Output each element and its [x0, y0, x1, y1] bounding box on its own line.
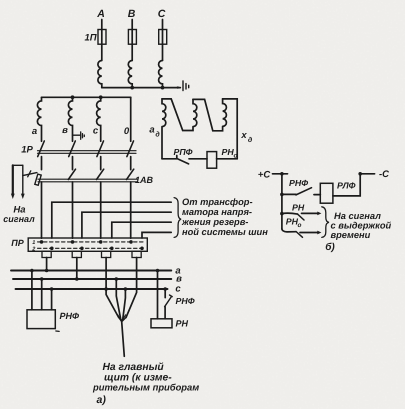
primary winding coil C: [159, 61, 163, 88]
bus c: [16, 288, 168, 290]
svg-text:времени: времени: [331, 230, 371, 240]
svg-text:От трансфор-: От трансфор-: [182, 197, 253, 207]
broken delta winding: [162, 99, 166, 159]
fuse 1П phase A: [98, 30, 106, 45]
svg-text:0: 0: [124, 126, 130, 137]
junction dot b-sec: [71, 95, 75, 99]
svg-text:с: с: [93, 126, 99, 137]
fuse 1П phase C: [159, 30, 167, 45]
svg-text:сигнал: сигнал: [3, 214, 35, 224]
switch 1АВ blade pole c: [97, 169, 104, 179]
fuse link c: [102, 251, 111, 257]
svg-text:-С: -С: [379, 169, 389, 180]
svg-text:1: 1: [32, 240, 35, 246]
relay РНФ box (left): [32, 271, 52, 310]
dashed row 1: [38, 241, 146, 243]
switch 1Р blade pole b: [69, 141, 76, 157]
fuse link b: [72, 251, 81, 257]
svg-text:2: 2: [31, 247, 35, 253]
svg-text:в: в: [62, 125, 68, 136]
secondary coil a: [37, 97, 41, 141]
svg-text:На сигнал: На сигнал: [334, 211, 381, 221]
svg-text:о: о: [234, 153, 238, 160]
paper grain: [0, 0, 1, 1]
fuse 1П phase B: [128, 30, 136, 45]
dashed row 2: [38, 247, 146, 249]
contact РНФ row: [280, 193, 284, 197]
svg-text:д: д: [155, 131, 160, 139]
aux contact blade: [23, 173, 37, 176]
svg-text:На главный: На главный: [103, 362, 165, 373]
secondary coil b: [68, 97, 72, 141]
link wire c to bus c and funnel: [106, 258, 119, 318]
svg-text:с выдержкой: с выдержкой: [331, 221, 392, 231]
primary winding coil B: [128, 61, 132, 88]
brace for reserve bus text: [174, 198, 181, 238]
wires between 1Р and 1АВ: [42, 157, 131, 170]
wire phase A drop: [101, 20, 103, 61]
link wire a to bus a: [46, 258, 48, 271]
contact РН row: [280, 212, 284, 216]
junction dot C-bus: [161, 86, 165, 90]
svg-text:ПР: ПР: [11, 238, 24, 248]
wire phase C drop: [162, 20, 164, 61]
wire to -C: [333, 174, 375, 196]
svg-text:рительным приборам: рительным приборам: [92, 381, 199, 392]
arrowhead 1: [11, 194, 15, 199]
svg-text:а: а: [149, 125, 154, 136]
relay РН coil: [151, 319, 172, 328]
svg-text:РНФ: РНФ: [289, 178, 308, 188]
svg-text:РПФ: РПФ: [173, 147, 192, 157]
signal wire 1: [12, 165, 14, 195]
wire to main panel: [122, 322, 125, 357]
svg-text:а: а: [32, 126, 37, 137]
relay РЛФ coil: [320, 183, 333, 203]
signal tap wiring: [13, 164, 23, 166]
svg-text:РН: РН: [292, 203, 305, 213]
svg-text:РН: РН: [176, 319, 189, 329]
bus b: [13, 278, 171, 280]
breaker 1АВ pole a (slanted body): [35, 174, 41, 185]
svg-text:РН: РН: [222, 147, 235, 157]
brace signal delayed: [322, 207, 329, 238]
svg-text:1П: 1П: [84, 33, 96, 44]
reserve tap wire a: [52, 202, 171, 238]
ground at phase b secondary: [73, 132, 85, 139]
svg-text:о: о: [298, 222, 302, 229]
contact РНФ: [165, 295, 173, 307]
switch 1АВ blade pole 0: [127, 169, 134, 179]
switch 1Р blade pole c: [97, 141, 104, 157]
junction dot c-sec: [99, 95, 103, 99]
reserve tap wire c: [112, 222, 171, 238]
svg-text:РНФ: РНФ: [176, 296, 195, 306]
funnel wire from bus c: [123, 289, 125, 318]
relay РН0 coil: [207, 152, 217, 169]
arrowhead 2: [21, 194, 25, 199]
bus a: [11, 270, 171, 272]
svg-text:а): а): [97, 394, 107, 406]
relay РН box (right): [157, 271, 159, 319]
funnel convergence: [119, 318, 126, 322]
svg-text:1Р: 1Р: [21, 145, 33, 156]
secondary coil c: [97, 97, 101, 141]
funnel wire from bus b: [116, 279, 120, 318]
switch 1Р blade pole a: [38, 141, 45, 157]
svg-text:жения резерв-: жения резерв-: [181, 217, 248, 227]
ink speck: [56, 330, 59, 332]
funnel arrow barbs: [118, 315, 126, 322]
bottom wire of delta with РПФ contact: [162, 156, 177, 159]
dot before ground: [177, 86, 179, 88]
ground (primary neutral): [183, 81, 189, 91]
switch 1Р blade pole 0: [127, 141, 134, 157]
svg-text:В: В: [128, 8, 136, 20]
fuse link a: [42, 251, 51, 257]
svg-text:д: д: [248, 136, 253, 144]
wires 1АВ down to fuse block: [42, 182, 131, 238]
svg-text:ной системы шин: ной системы шин: [182, 227, 268, 237]
reserve tap wire 0: [142, 232, 171, 238]
wire phase B drop: [131, 20, 133, 61]
svg-text:С: С: [158, 8, 166, 20]
primary star bus: [102, 87, 181, 89]
wire to РН0 coil: [189, 158, 207, 160]
svg-text:РЛФ: РЛФ: [337, 181, 356, 191]
row2 dots: [50, 247, 54, 251]
wire 0 (neutral): [130, 97, 132, 141]
link wire 0 into funnel: [126, 258, 137, 318]
vertical feeder: [281, 174, 283, 229]
secondary star bus: [42, 96, 131, 98]
svg-text:+С: +С: [258, 170, 271, 181]
aux contact tick: [28, 171, 31, 177]
svg-text:1АВ: 1АВ: [135, 175, 154, 185]
contact РПФ blade: [177, 158, 189, 164]
switch 1АВ linkage bar: [38, 179, 138, 182]
switch 1Р linkage bar: [38, 151, 137, 154]
primary winding coil A: [98, 61, 102, 88]
reserve tap wire b: [82, 212, 171, 238]
link wire b to bus b: [76, 258, 78, 280]
switch 1АВ blade pole b: [68, 169, 75, 179]
svg-text:с: с: [175, 284, 181, 295]
svg-text:х: х: [240, 130, 247, 141]
junction dot B-bus: [130, 86, 134, 90]
contact РН0 row: [282, 229, 296, 232]
svg-text:матора напря-: матора напря-: [182, 207, 252, 217]
signal wire 2: [22, 165, 24, 195]
svg-text:б): б): [325, 242, 335, 253]
wire into РН coil: [164, 307, 166, 319]
svg-text:А: А: [96, 8, 105, 20]
fuse link 0: [132, 251, 141, 257]
row1 dots: [40, 240, 44, 244]
svg-text:РНФ: РНФ: [60, 311, 80, 321]
